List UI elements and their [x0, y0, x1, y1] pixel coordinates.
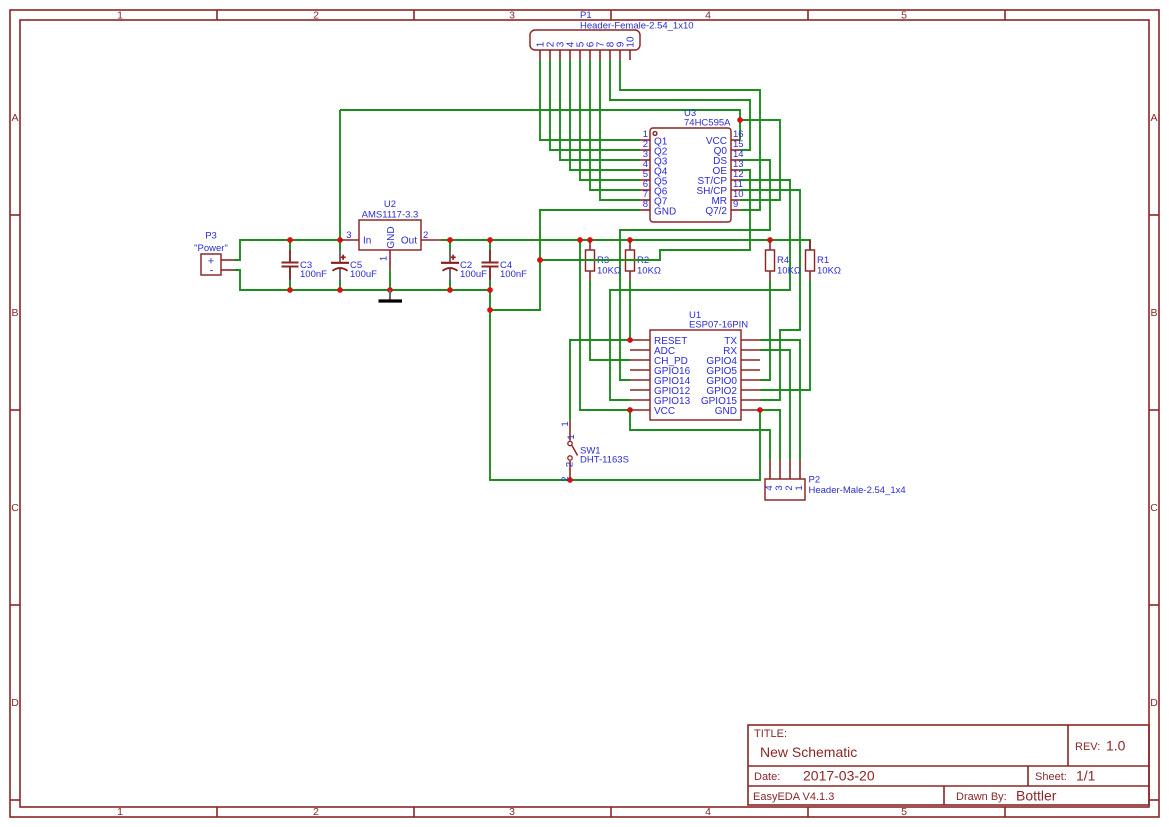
svg-text:1: 1	[379, 256, 390, 261]
wire R1 to U1.GPIO2	[760, 280, 810, 390]
svg-text:New Schematic: New Schematic	[760, 744, 857, 760]
svg-text:P2: P2	[809, 475, 821, 486]
junction U1 RESET / R2	[627, 337, 633, 343]
junction R2 top	[627, 237, 633, 243]
junction C5 top / VCC riser	[337, 237, 343, 243]
svg-text:-: -	[210, 265, 214, 277]
svg-text:2: 2	[565, 462, 576, 467]
svg-text:A: A	[1150, 112, 1157, 124]
svg-text:1: 1	[566, 434, 577, 439]
svg-text:2: 2	[313, 10, 319, 22]
wire P1.3 to U3.Q3	[560, 60, 640, 160]
regulator U2 AMS1117-3.3	[340, 199, 441, 270]
resistor R2 10K	[626, 240, 662, 280]
IC U3 74HC595A	[640, 108, 744, 222]
wire C3 top lead	[289, 240, 291, 250]
junction 3.3V riser x580	[577, 237, 583, 243]
U3 pin 1 indicator	[653, 132, 657, 136]
svg-text:ESP07-16PIN: ESP07-16PIN	[689, 320, 748, 331]
svg-text:GND: GND	[386, 226, 397, 248]
frame row labels left	[11, 112, 19, 709]
svg-text:Header-Male-2.54_1x4: Header-Male-2.54_1x4	[809, 485, 906, 496]
svg-text:"Power": "Power"	[194, 243, 228, 254]
svg-text:Out: Out	[401, 236, 417, 247]
U1 pin stubs	[630, 340, 760, 410]
junction U2 GND rail	[387, 287, 393, 293]
svg-text:VCC: VCC	[654, 406, 675, 417]
wire P1.5 to U3.Q5	[580, 60, 640, 180]
ground symbol	[379, 290, 403, 301]
IC U1 ESP07-16PIN	[630, 310, 760, 420]
capacitor C3 100nF	[282, 250, 328, 280]
svg-text:2: 2	[560, 476, 571, 481]
svg-text:R4: R4	[777, 255, 789, 266]
svg-text:1: 1	[794, 485, 805, 490]
wire P1.9 to U3.Q7/2	[620, 60, 760, 210]
wire U3.ST/CP to U1.GPIO13	[610, 180, 790, 400]
svg-text:Q7/2: Q7/2	[705, 206, 727, 217]
wire U1.RESET to SW1.1	[570, 340, 630, 420]
svg-text:8: 8	[643, 199, 648, 210]
svg-text:100nF: 100nF	[500, 269, 527, 280]
capacitor C4 100nF	[482, 250, 528, 280]
SW1 contacts and lever	[568, 441, 572, 445]
wire U1.TX to P2.1	[760, 340, 800, 460]
svg-text:A: A	[11, 112, 18, 124]
svg-text:1: 1	[117, 10, 123, 22]
resistor R1 10K	[806, 240, 842, 280]
U3 pin numbers 1-8	[643, 129, 648, 210]
wire U1.RX to P2.2	[760, 350, 790, 460]
junction C5 bottom	[337, 287, 343, 293]
junction GND-OE tap dot	[537, 257, 543, 263]
junction C3 top	[287, 237, 293, 243]
wire P1.7 to U3.Q7	[600, 60, 640, 200]
switch SW1 DHT-1163S	[560, 420, 629, 482]
svg-text:5: 5	[901, 10, 907, 22]
svg-text:10KΩ: 10KΩ	[817, 266, 841, 277]
svg-text:REV:: REV:	[1075, 741, 1100, 753]
svg-text:4: 4	[705, 10, 711, 22]
wire P1.2 to U3.Q2	[550, 60, 640, 150]
wire ground riser at x490	[490, 290, 760, 480]
frame row labels right	[1150, 112, 1158, 709]
wire P3 minus to ground rail	[234, 270, 490, 290]
capacitor C2 100uF (polar)	[441, 250, 487, 280]
capacitor C5 100uF (polar)	[331, 250, 377, 280]
svg-text:GND: GND	[715, 406, 737, 417]
P1 body	[530, 30, 640, 50]
svg-text:2: 2	[423, 230, 428, 241]
svg-text:10KΩ: 10KΩ	[777, 266, 801, 277]
svg-text:D: D	[11, 697, 19, 709]
wire C2 top lead	[449, 240, 451, 250]
P1 pin numbers 1-10	[536, 36, 637, 48]
wire C3 bottom lead	[289, 280, 291, 290]
junction ground riser x490	[487, 307, 493, 313]
junction SW1 pin2	[567, 477, 573, 483]
U1 left pin names	[654, 336, 691, 417]
connector P1 Header-Female-2.54_1x10	[530, 10, 694, 60]
wire C4 top lead	[489, 240, 491, 250]
svg-text:2017-03-20: 2017-03-20	[803, 768, 875, 784]
wire VCC branch to P2.4	[630, 410, 770, 460]
svg-text:C: C	[11, 502, 19, 514]
title block text	[753, 728, 1126, 804]
U1 right pin names	[701, 336, 738, 417]
junction U1 VCC pin	[627, 407, 633, 413]
svg-text:U2: U2	[384, 199, 396, 210]
svg-text:In: In	[363, 236, 371, 247]
junction C2 bottom	[447, 287, 453, 293]
svg-text:C: C	[1150, 502, 1158, 514]
U1 body	[650, 330, 741, 420]
svg-text:1.0: 1.0	[1106, 738, 1126, 754]
P3 pin stubs	[221, 260, 234, 270]
svg-text:100uF: 100uF	[350, 269, 377, 280]
connector P3 "Power"	[194, 231, 234, 277]
R2 body	[626, 250, 635, 271]
P3 body	[201, 254, 221, 275]
R1 body	[806, 250, 815, 271]
title block	[748, 725, 1149, 805]
junction C3 bottom	[287, 287, 293, 293]
junction R4 top	[767, 237, 773, 243]
svg-text:1: 1	[560, 421, 571, 426]
junction C2 top	[447, 237, 453, 243]
svg-text:B: B	[11, 307, 18, 319]
wire ground net to U3.OE	[540, 170, 750, 260]
junction U1 GND pin	[757, 407, 763, 413]
wire C2 bottom lead	[449, 280, 451, 290]
connector P2 Header-Male-2.54_1x4	[764, 460, 906, 500]
svg-text:D: D	[1150, 697, 1158, 709]
wire 3.3V riser to U1.VCC	[580, 240, 630, 410]
U3 pin numbers 16-9	[733, 129, 744, 210]
P2 pin numbers 4-1	[764, 485, 805, 490]
svg-text:10KΩ: 10KΩ	[597, 266, 621, 277]
svg-text:10KΩ: 10KΩ	[637, 266, 661, 277]
P2 body	[765, 479, 805, 500]
wire P1.4 to U3.Q4	[570, 60, 640, 170]
wire P3 plus to input rail	[234, 240, 343, 260]
R3 body	[586, 250, 595, 271]
wire VCC riser at x340	[339, 110, 341, 240]
P2 pin stubs	[770, 460, 800, 479]
wire VCC horizontal to U3.VCC	[340, 110, 740, 140]
svg-text:Header-Female-2.54_1x10: Header-Female-2.54_1x10	[580, 21, 694, 32]
junction R3 top	[587, 237, 593, 243]
svg-text:5: 5	[901, 806, 907, 818]
wire 3.3V output rail	[441, 240, 810, 250]
svg-text:AMS1117-3.3: AMS1117-3.3	[362, 210, 419, 221]
svg-text:100uF: 100uF	[460, 269, 487, 280]
svg-text:74HC595A: 74HC595A	[684, 118, 731, 129]
SW1 pin numbers	[560, 421, 577, 481]
wire VCC branch to U3.MR	[740, 120, 780, 200]
svg-text:9: 9	[733, 199, 738, 210]
svg-text:4: 4	[705, 806, 711, 818]
U2 body	[359, 220, 421, 250]
R4 body	[766, 250, 775, 271]
svg-text:EasyEDA V4.1.3: EasyEDA V4.1.3	[753, 791, 834, 803]
svg-text:TITLE:: TITLE:	[754, 728, 787, 740]
wire C5 bottom lead	[339, 280, 341, 290]
wire U3.DS to U1.GPIO14	[620, 160, 770, 380]
svg-text:10: 10	[626, 36, 637, 48]
wire P1.6 to U3.Q6	[590, 60, 640, 190]
junction U3 VCC / MR tap	[737, 117, 743, 123]
junction C4 bottom	[487, 287, 493, 293]
wire C5 top lead	[339, 240, 341, 250]
svg-text:3: 3	[346, 230, 351, 241]
frame column labels top	[117, 10, 907, 22]
wire P1.8 to U3.Q0	[610, 60, 750, 150]
frame column labels bottom	[117, 806, 907, 818]
svg-text:3: 3	[509, 10, 515, 22]
SW1 pin stubs	[569, 420, 571, 441]
svg-text:2: 2	[313, 806, 319, 818]
resistor R4 10K	[766, 240, 802, 280]
U2 pin stubs	[340, 240, 441, 270]
U3 body	[650, 128, 731, 222]
wire R3 to U1.CH_PD	[590, 280, 630, 360]
wire U3.GND to ground net	[490, 210, 640, 310]
svg-text:100nF: 100nF	[300, 269, 327, 280]
wire P1.1 to U3.Q1	[540, 60, 640, 140]
wire U3.SH/CP to U1.GPIO15	[740, 190, 800, 400]
svg-text:P3: P3	[205, 231, 217, 242]
svg-text:Bottler: Bottler	[1016, 788, 1057, 804]
wire ground branch to U3 gnd jog	[490, 309, 540, 311]
wire U1.GND to P2.3	[760, 410, 780, 460]
svg-text:Sheet:: Sheet:	[1035, 771, 1067, 783]
svg-text:Date:: Date:	[754, 771, 780, 783]
svg-text:Drawn By:: Drawn By:	[956, 791, 1007, 803]
junction C4 top	[487, 237, 493, 243]
wire R2 to U1.RESET	[629, 280, 631, 340]
svg-text:R1: R1	[817, 255, 829, 266]
svg-text:B: B	[1150, 307, 1157, 319]
U3 pin stubs	[640, 140, 740, 210]
svg-text:1: 1	[117, 806, 123, 818]
svg-text:1/1: 1/1	[1076, 768, 1096, 784]
U3 right pin names VCC-Q7/2	[696, 136, 727, 217]
wire R4 to U1.GPIO0	[760, 280, 770, 380]
svg-text:DHT-1163S: DHT-1163S	[580, 455, 629, 466]
junction GND-OE tap	[537, 257, 543, 263]
wire C4 bottom lead	[489, 280, 491, 290]
svg-text:3: 3	[509, 806, 515, 818]
resistor R3 10K	[586, 240, 622, 280]
wire U2.GND to ground rail	[389, 270, 391, 290]
svg-text:GND: GND	[654, 207, 676, 218]
U3 left pin names Q1-Q7 GND	[654, 137, 676, 218]
